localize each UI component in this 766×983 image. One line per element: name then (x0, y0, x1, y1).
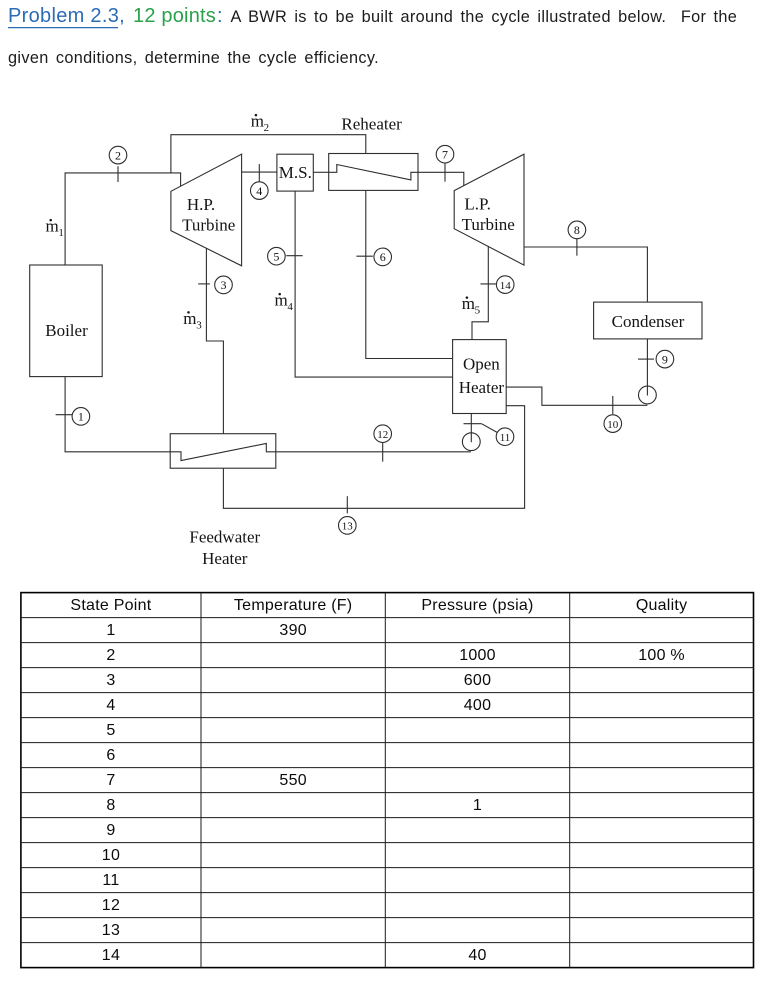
svg-text:8: 8 (106, 797, 115, 814)
open heater (453, 340, 507, 414)
node 10: state point marker (604, 396, 622, 433)
svg-text:13: 13 (342, 521, 354, 533)
svg-text:1: 1 (106, 622, 115, 639)
wire: moisture separator drain m4 through state 5 to open heater (295, 191, 453, 377)
svg-text:Problem 2.3,: Problem 2.3, (8, 5, 125, 27)
svg-text:Turbine: Turbine (462, 215, 515, 234)
table row state 7 (106, 772, 307, 789)
table header row (70, 597, 687, 614)
svg-text:Open: Open (463, 355, 500, 374)
node 4: state point marker (250, 164, 268, 199)
svg-text:m: m (251, 112, 264, 131)
node 3: state point marker (198, 276, 232, 294)
svg-text:3: 3 (221, 278, 227, 292)
svg-text:11: 11 (500, 432, 511, 444)
node 11: state point marker (464, 424, 514, 446)
wire: L.P. turbine exhaust through state 8 to condenser (524, 247, 647, 302)
svg-text::: : (217, 5, 223, 27)
wire: feedwater heater drain loop through state 13 to open heater (223, 406, 524, 509)
svg-text:Pressure (psia): Pressure (psia) (421, 597, 533, 614)
svg-text:2: 2 (264, 122, 270, 134)
svg-text:4: 4 (106, 697, 115, 714)
node 5: state point marker (268, 247, 303, 265)
wire: open heater bottom outlet into feed pump (470, 414, 472, 442)
table row state 11 (102, 872, 119, 889)
table row state 1 (106, 622, 307, 639)
wire: H.P. turbine bleed m3 down to feedwater heater shell (206, 248, 223, 433)
table row state 14 (102, 947, 487, 964)
svg-text:m: m (183, 309, 196, 328)
svg-text:11: 11 (102, 872, 119, 889)
svg-text:14: 14 (500, 280, 512, 292)
flow label m2 (251, 112, 269, 135)
node 11 leader line (482, 424, 498, 433)
svg-text:L.P.: L.P. (464, 195, 490, 214)
svg-text:1: 1 (58, 227, 64, 239)
svg-text:Temperature (F): Temperature (F) (234, 597, 352, 614)
flow label m4 (275, 291, 294, 314)
flow label m1 (46, 217, 64, 240)
flow label m5 (462, 294, 481, 317)
svg-text:m: m (275, 291, 288, 310)
wire: feedwater heater tube line right side through state 12 to feed pump (276, 451, 471, 453)
wire: feedwater heater tube line left through state 1 to boiler (65, 377, 170, 452)
L.P. turbine (454, 154, 524, 265)
svg-text:12 points: 12 points (133, 5, 216, 27)
wire: reheater drain through state 6 to open heater (366, 190, 453, 358)
table row state 8 (106, 797, 482, 814)
svg-text:7: 7 (442, 147, 448, 161)
node 14: state point marker (481, 276, 515, 294)
title underline (8, 27, 118, 29)
svg-text:Heater: Heater (202, 549, 248, 568)
table row state 12 (102, 897, 120, 914)
wire: m2 branch riser and top line into reheater shell (171, 135, 366, 173)
svg-text:4: 4 (287, 301, 293, 313)
svg-text:m: m (46, 217, 59, 236)
svg-text:12: 12 (102, 897, 120, 914)
svg-text:550: 550 (279, 772, 306, 789)
svg-text:given conditions, determine th: given conditions, determine the cycle ef… (8, 49, 379, 67)
svg-text:5: 5 (273, 249, 279, 263)
svg-text:2: 2 (106, 647, 115, 664)
svg-text:Condenser: Condenser (612, 312, 685, 331)
H.P. turbine (171, 154, 242, 266)
node 2: state point marker (109, 146, 127, 182)
svg-text:A BWR is to be built around th: A BWR is to be built around the cycle il… (231, 8, 738, 26)
condensate pump (639, 386, 657, 404)
svg-text:9: 9 (662, 352, 668, 366)
feed pump (462, 433, 480, 451)
wire: reheater to state 7 and L.P. turbine inlet (418, 172, 464, 185)
svg-text:5: 5 (475, 305, 481, 317)
svg-text:Reheater: Reheater (341, 114, 402, 133)
table row state 13 (102, 922, 120, 939)
svg-text:600: 600 (464, 672, 491, 689)
table row state 2 (106, 647, 685, 664)
svg-text:Boiler: Boiler (45, 321, 88, 340)
svg-text:13: 13 (102, 922, 120, 939)
flow label m3 (183, 309, 202, 332)
reheater (329, 114, 418, 190)
node 13: state point marker (339, 496, 357, 534)
boiler (30, 265, 103, 377)
node 1: state point marker (56, 408, 90, 426)
node 6: state point marker (356, 248, 391, 266)
svg-text:6: 6 (380, 250, 386, 264)
table row state 3 (106, 672, 491, 689)
node 7: state point marker (436, 145, 454, 181)
svg-text:390: 390 (279, 622, 306, 639)
svg-text:1: 1 (78, 410, 84, 424)
svg-text:1: 1 (473, 797, 482, 814)
moisture separator M.S. (277, 154, 313, 191)
svg-text:12: 12 (377, 429, 388, 441)
svg-text:14: 14 (102, 947, 120, 964)
node 12: state point marker (374, 425, 392, 462)
wire: condenser outlet through state 9 into condensate pump (646, 339, 648, 395)
wire: H.P. turbine outlet to moisture separator (242, 171, 277, 173)
svg-text:State Point: State Point (70, 597, 151, 614)
svg-text:H.P.: H.P. (187, 195, 215, 214)
svg-text:7: 7 (106, 772, 115, 789)
svg-text:5: 5 (106, 722, 115, 739)
svg-text:100 %: 100 % (638, 647, 685, 664)
table row state 9 (106, 822, 115, 839)
wire: moisture separator to reheater tube (313, 171, 328, 173)
svg-text:10: 10 (102, 847, 120, 864)
condenser (594, 302, 702, 339)
svg-text:Heater: Heater (459, 378, 505, 397)
svg-text:m: m (462, 294, 475, 313)
svg-text:Turbine: Turbine (182, 216, 235, 235)
svg-text:2: 2 (115, 148, 121, 162)
node 9: state point marker (638, 350, 674, 368)
svg-text:400: 400 (464, 697, 491, 714)
svg-text:6: 6 (106, 747, 115, 764)
wire: condensate pump discharge through state 10 to open heater (506, 387, 647, 405)
table row state 5 (106, 722, 115, 739)
svg-text:1000: 1000 (459, 647, 496, 664)
svg-text:M.S.: M.S. (279, 163, 312, 182)
table row state 10 (102, 847, 120, 864)
svg-text:10: 10 (607, 419, 619, 431)
svg-text:3: 3 (106, 672, 115, 689)
svg-text:40: 40 (468, 947, 486, 964)
svg-text:8: 8 (574, 223, 580, 237)
node 8: state point marker (568, 221, 586, 256)
feedwater heater (170, 434, 276, 568)
svg-text:3: 3 (196, 319, 202, 331)
table row state 6 (106, 747, 115, 764)
svg-text:Feedwater: Feedwater (189, 527, 260, 546)
table row state 4 (106, 697, 491, 714)
svg-text:Quality: Quality (636, 597, 688, 614)
svg-text:9: 9 (106, 822, 115, 839)
svg-text:4: 4 (256, 184, 262, 198)
wire: L.P. turbine bleed m5 through state 14 to open heater top (472, 247, 488, 340)
wire: boiler top up to state 2 line and into H.P. turbine inlet (65, 173, 181, 265)
data table grid (21, 593, 754, 968)
